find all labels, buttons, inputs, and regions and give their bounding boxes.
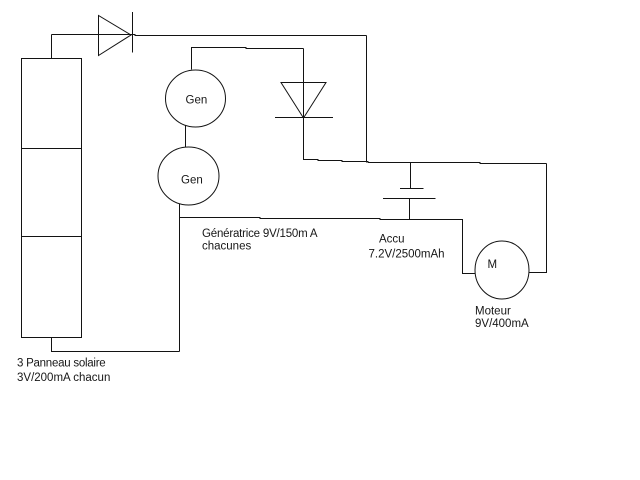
motor M1 <box>475 241 529 299</box>
svg-text:M: M <box>488 259 498 271</box>
svg-text:3V/200mA chacun: 3V/200mA chacun <box>17 372 110 384</box>
svg-text:Génératrice 9V/150m A: Génératrice 9V/150m A <box>202 228 318 240</box>
wire diode D2 cathode drop <box>303 49 305 161</box>
diode D2 <box>275 83 333 119</box>
wire top-right drop <box>366 36 368 163</box>
wire mid bus <box>304 160 547 164</box>
battery BT1 Accu <box>383 163 436 220</box>
solar panel PV1 (3 cells) <box>22 59 82 338</box>
svg-text:7.2V/2500mAh: 7.2V/2500mAh <box>369 249 445 261</box>
svg-text:9V/400mA: 9V/400mA <box>475 318 529 330</box>
wire top bus <box>52 35 367 36</box>
svg-text:chacunes: chacunes <box>202 241 251 253</box>
wire G1 to G2 <box>185 126 187 148</box>
wire from panel top to top bus <box>51 35 53 59</box>
svg-text:Gen: Gen <box>186 95 208 107</box>
svg-text:Moteur: Moteur <box>475 306 511 318</box>
wire lower bus to motor left <box>180 218 476 274</box>
wire G2 bottom drop <box>179 204 181 352</box>
svg-text:Accu: Accu <box>379 234 405 246</box>
svg-text:Gen: Gen <box>181 175 203 187</box>
generator G2 <box>158 147 219 205</box>
diode D1 <box>99 12 133 56</box>
generator G1 <box>166 70 226 127</box>
wire gen1 to diode D2 <box>192 48 304 70</box>
wire motor right riser <box>529 164 547 273</box>
svg-text:3 Panneau solaire: 3 Panneau solaire <box>17 358 105 370</box>
wire panel bottom return <box>52 338 180 352</box>
